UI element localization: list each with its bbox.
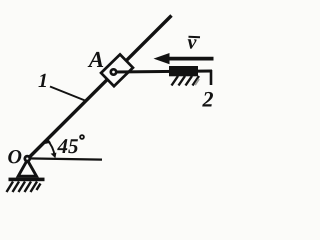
link 2 horizontal rod — [115, 71, 212, 72]
ground bar under O — [9, 178, 45, 182]
pivot pin circle at O — [25, 156, 30, 161]
leader line to label 1 — [50, 87, 85, 101]
pivot triangle at O — [18, 160, 36, 176]
guide hatching — [172, 76, 200, 86]
ground hatching under O — [7, 182, 41, 193]
label v with overbar — [188, 39, 197, 48]
label 2 — [202, 92, 213, 107]
horizontal reference line at O — [27, 158, 102, 159]
gray smudge near guide hatching — [195, 79, 199, 85]
label O — [8, 150, 21, 163]
angle arc with arrowheads — [47, 140, 55, 156]
slider block A — [101, 54, 133, 86]
label A — [88, 52, 104, 67]
fixed guide block on link 2 — [169, 66, 198, 76]
label 45deg — [57, 139, 78, 153]
rod link 1 (O to top right) — [27, 16, 172, 160]
velocity arrow v — [154, 53, 214, 64]
pin at A — [111, 69, 116, 74]
tick at right end of link 2 — [210, 70, 213, 85]
label 1 — [38, 74, 46, 87]
